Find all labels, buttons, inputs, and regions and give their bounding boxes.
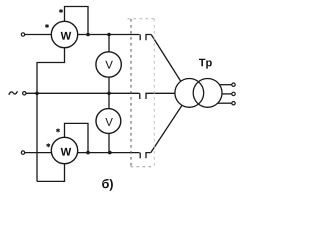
- polarity mark W2 line: [47, 144, 50, 147]
- connector half left middle (tick): [139, 93, 141, 99]
- voltmeter V2: [96, 109, 121, 134]
- wire left bus from phase B down: [36, 93, 38, 181]
- wire phase C bottom horizontal: [25, 152, 140, 154]
- label b): [102, 179, 113, 191]
- junction on phase A at loop: [86, 33, 90, 37]
- label Tp: [199, 59, 212, 69]
- wire phase A top horizontal: [25, 34, 140, 36]
- dashed boundary right edge: [153, 19, 155, 167]
- terminal input middle: [23, 92, 26, 95]
- wire secondary stub bottom: [218, 102, 232, 104]
- transformer Tp secondary circle: [193, 79, 222, 108]
- wattmeter W1: [51, 21, 77, 47]
- wire diagonal top to transformer: [151, 35, 181, 82]
- junction on phase B at voltmeter: [107, 92, 111, 96]
- junction on phase C at loop: [86, 151, 90, 155]
- polarity mark W1 loop: [60, 9, 63, 12]
- connector half left bottom (tick): [139, 153, 141, 159]
- terminal secondary bottom: [232, 102, 235, 105]
- wire secondary stub middle: [222, 93, 232, 95]
- wire voltage-coil loop of W2: [65, 123, 89, 152]
- connector half left top (tick): [139, 35, 141, 41]
- connector half right middle (tick): [146, 93, 175, 99]
- wire voltmeter column vertical: [108, 35, 110, 153]
- junction on phase A at voltmeter: [107, 33, 111, 37]
- transformer Tp primary circle: [175, 79, 204, 108]
- terminal input top: [21, 33, 24, 36]
- polarity mark W1 line: [46, 24, 49, 27]
- wattmeter W2: [51, 137, 77, 163]
- dashed boundary left edge: [130, 19, 132, 167]
- terminal secondary middle: [232, 92, 235, 95]
- junction on phase B at bus: [35, 92, 39, 96]
- wire W1 bottom lead to phase B: [37, 47, 65, 93]
- junction on phase C at voltmeter: [108, 151, 112, 155]
- polarity mark W2 loop: [57, 129, 60, 132]
- wire W2 bottom loop: [37, 163, 65, 181]
- wire phase B middle horizontal: [26, 92, 140, 94]
- wire diagonal bottom to transformer: [151, 106, 182, 153]
- voltmeter V1: [96, 52, 121, 77]
- dashed boundary bottom edge: [131, 166, 155, 168]
- terminal secondary top: [232, 83, 235, 86]
- wire secondary stub top: [219, 84, 231, 86]
- ac source tilde: [9, 91, 18, 95]
- wire voltage-coil loop of W1: [65, 7, 89, 35]
- dashed boundary top edge: [128, 18, 155, 20]
- connector half right bottom (tick): [146, 153, 151, 159]
- connector half right top (tick): [146, 35, 151, 41]
- terminal input bottom: [21, 151, 24, 154]
